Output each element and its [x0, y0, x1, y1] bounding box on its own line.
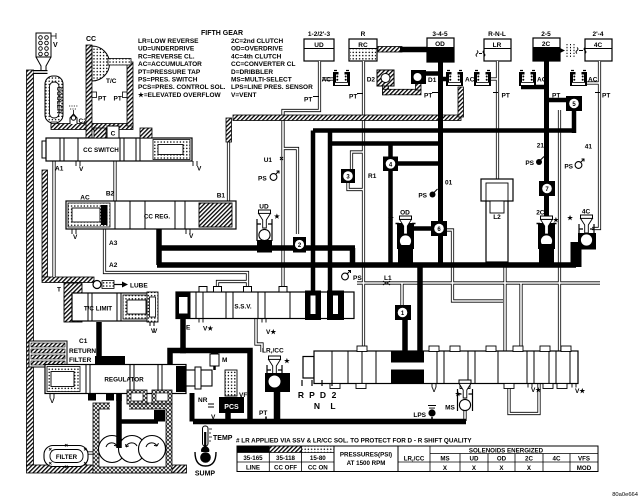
svg-text:T/C LIMIT: T/C LIMIT	[84, 306, 112, 313]
svg-text:LR,/CC: LR,/CC	[262, 348, 284, 355]
clutch LR box	[484, 31, 511, 61]
svg-text:V★: V★	[575, 387, 586, 395]
valve CC REG	[66, 191, 236, 270]
svg-text:UD: UD	[259, 204, 269, 211]
wire R1 branch into ball 3	[352, 152, 364, 169]
svg-text:D1: D1	[428, 77, 437, 84]
accumulator AC (2C circuit)	[519, 71, 536, 87]
pump manifold stub	[154, 410, 165, 422]
vent component top-left	[36, 33, 58, 71]
wire CC REG riser to bus	[156, 229, 162, 265]
wire SSV feed leg 1	[311, 131, 316, 293]
wire D1 stub to OD line	[426, 71, 440, 76]
wire UD clutch pipe	[283, 61, 320, 292]
inner hatched wall horizontal above T/C limit	[42, 277, 94, 283]
svg-text:PS=PRES. SWITCH: PS=PRES. SWITCH	[138, 77, 198, 84]
wire manual valve top feed 1	[447, 230, 503, 301]
manual valve vent labels	[432, 384, 436, 388]
svg-text:M: M	[222, 357, 227, 364]
svg-text:V=VENT: V=VENT	[231, 92, 256, 99]
svg-text:OD: OD	[400, 210, 410, 217]
svg-text:V: V	[79, 166, 84, 173]
svg-text:PT: PT	[349, 94, 357, 101]
SSV top port stubs	[199, 287, 287, 293]
wire E-feed to regulator	[170, 351, 186, 366]
svg-text:FILTER: FILTER	[69, 357, 92, 364]
wire OD supply bar	[400, 47, 427, 53]
svg-text:R1: R1	[368, 173, 377, 180]
wire pump manifold	[119, 419, 158, 424]
svg-text:L: L	[330, 401, 335, 411]
cooler outlet to hatched line	[51, 122, 57, 127]
pipe cores (white)	[54, 61, 600, 453]
svg-text:L1: L1	[384, 275, 392, 282]
svg-text:D=DRIBBLER: D=DRIBBLER	[231, 69, 273, 76]
wire manual valve top feed 2	[519, 283, 522, 351]
legend left column	[138, 38, 226, 99]
L1 restrictor	[383, 281, 390, 285]
solenoid 4C	[567, 209, 596, 250]
svg-text:RETURN: RETURN	[69, 348, 96, 355]
PT port left wall	[92, 92, 97, 98]
suction filter	[44, 444, 88, 468]
valve REGULATOR	[45, 351, 247, 421]
port hatch stub right-top of CC SWITCH	[140, 128, 152, 138]
svg-text:A3: A3	[109, 240, 118, 247]
wire ball5 drop	[572, 110, 577, 133]
svg-text:2C: 2C	[536, 210, 545, 217]
svg-text:R: R	[361, 31, 366, 38]
svg-text:R-N-L: R-N-L	[488, 31, 506, 38]
solenoid 2C	[536, 210, 560, 264]
PCS pressure control solenoid	[219, 397, 244, 413]
wire ball6 arm to OD solenoid	[413, 226, 433, 231]
manual valve pressurized section	[391, 351, 424, 384]
wire RC clutch pipe	[362, 61, 365, 350]
pressure table	[237, 446, 334, 472]
hatched elbow D2 to D1	[383, 85, 389, 95]
svg-text:T: T	[57, 287, 61, 294]
svg-text:LR: LR	[493, 42, 502, 49]
thick pressurized lines	[99, 50, 576, 449]
svg-text:UD=UNDERDRIVE: UD=UNDERDRIVE	[138, 46, 195, 53]
ball 5	[566, 96, 582, 111]
svg-text:21: 21	[537, 143, 545, 150]
wire SSV to LR/CC solenoid	[256, 319, 262, 353]
solenoid OD	[388, 210, 415, 264]
svg-text:80a0e664: 80a0e664	[612, 492, 639, 498]
svg-text:P: P	[309, 390, 315, 400]
wire OD clutch main line	[438, 62, 443, 268]
svg-text:PS: PS	[353, 275, 362, 282]
wire ball4 to OD line	[396, 161, 441, 166]
manual valve position ticks	[302, 380, 332, 386]
ball 6	[431, 221, 447, 236]
wire MS valve to line	[463, 411, 466, 421]
ball 3	[341, 169, 377, 183]
M orifice	[210, 354, 219, 366]
svg-text:LR,/CC: LR,/CC	[404, 456, 425, 463]
svg-text:4C: 4C	[582, 209, 591, 216]
svg-text:2C: 2C	[542, 41, 551, 48]
valve T/C LIMIT	[57, 281, 158, 346]
wire solenoid supply bar	[159, 245, 355, 251]
pressure switch on L1 line	[342, 271, 363, 283]
svg-text:3-4-5: 3-4-5	[432, 31, 448, 38]
valve CC SWITCH	[42, 126, 202, 173]
svg-text:RC: RC	[358, 42, 368, 49]
svg-text:FILTER: FILTER	[56, 454, 78, 461]
svg-text:4C=4th CLUTCH: 4C=4th CLUTCH	[231, 53, 282, 60]
svg-text:OD=OVERDRIVE: OD=OVERDRIVE	[231, 46, 283, 53]
clutch RC box	[349, 31, 377, 61]
wire AC stub to UD pipe	[322, 77, 333, 80]
wire 4C clutch pipe	[592, 61, 600, 229]
dribbler spray right of 2C	[560, 48, 565, 53]
wire E-feed to lower bus	[180, 351, 250, 422]
accumulator L2	[481, 179, 513, 262]
svg-text:V: V	[73, 234, 78, 241]
port C box	[107, 126, 119, 138]
svg-text:C: C	[111, 131, 116, 138]
wire ball1 to manual valve	[402, 318, 408, 351]
svg-text:35-165: 35-165	[243, 455, 263, 462]
cooler return wall (left hatched band)	[27, 70, 34, 466]
svg-text:CC REG.: CC REG.	[144, 214, 170, 221]
svg-text:V: V	[53, 42, 58, 49]
accumulator AC (LR circuit)	[474, 71, 491, 87]
sensor LPS	[413, 406, 436, 422]
ball 7	[539, 181, 555, 196]
svg-text:A1: A1	[55, 166, 64, 173]
solenoid table	[398, 446, 598, 472]
svg-text:CC SWITCH: CC SWITCH	[83, 147, 119, 154]
svg-text:D: D	[320, 390, 326, 400]
ball 2	[293, 237, 306, 253]
wire B1 pipe	[227, 140, 230, 201]
svg-text:LUBE: LUBE	[130, 283, 148, 290]
nozzle bowtie left of LR	[476, 51, 485, 57]
wire SSV top loop	[218, 282, 248, 293]
bottom hatched band	[27, 465, 187, 473]
svg-text:COOLER: COOLER	[55, 86, 62, 114]
svg-text:PT: PT	[259, 410, 267, 417]
VF screen	[225, 370, 237, 396]
pressure switch on 4C line	[564, 144, 592, 171]
svg-text:2C: 2C	[525, 456, 533, 463]
svg-text:# LR APPLIED VIA SSV & LR/CC S: # LR APPLIED VIA SSV & LR/CC SOL. TO PRO…	[236, 438, 472, 445]
svg-text:4C: 4C	[594, 42, 603, 49]
svg-text:CC: CC	[86, 36, 96, 43]
wire SSV feed leg 2	[328, 131, 333, 292]
wire AC stub to LR pipe	[491, 77, 497, 80]
svg-text:PT: PT	[114, 96, 122, 103]
accumulator AC (UD circuit)	[333, 71, 350, 87]
legend right column	[231, 38, 313, 99]
pressure switch U1 area	[258, 157, 283, 183]
svg-text:N: N	[314, 401, 320, 411]
wire 4C solenoid riser	[571, 242, 582, 267]
vent tick V on CC SWITCH	[76, 161, 80, 166]
svg-text:AC: AC	[465, 77, 475, 84]
vent tick V right of CC SWITCH	[193, 161, 197, 166]
valve S.S.V.	[176, 287, 354, 337]
svg-text:CC OFF: CC OFF	[274, 465, 297, 472]
wire filter connector	[85, 451, 99, 454]
torque converter dome	[92, 46, 110, 81]
svg-text:V: V	[151, 328, 156, 335]
svg-text:41: 41	[585, 144, 593, 151]
svg-text:35-118: 35-118	[276, 455, 295, 462]
svg-text:PCS=PRES. CONTROL SOL.: PCS=PRES. CONTROL SOL.	[138, 84, 226, 91]
wire regulator NR drop	[190, 393, 195, 422]
return filter	[29, 341, 96, 367]
nozzle bowtie left of 4C	[576, 48, 586, 54]
wire 2C tap line to manual valve	[558, 110, 561, 351]
ball 4	[383, 157, 398, 172]
wire L2 left leg to manual valve	[487, 262, 490, 265]
svg-text:LPS: LPS	[413, 412, 426, 419]
svg-text:4C: 4C	[553, 456, 561, 463]
converter-out hatched line (cooler feed)	[51, 124, 133, 130]
svg-text:REGULATOR: REGULATOR	[104, 377, 144, 384]
svg-text:V: V	[50, 398, 55, 405]
SSV E end block	[176, 292, 191, 319]
accumulator AC (OD circuit)	[446, 71, 463, 87]
wire R1 branch out of ball 3	[348, 183, 364, 190]
wire L2 right leg to manual valve	[503, 262, 506, 351]
svg-text:R: R	[298, 390, 304, 400]
lube outlet with check ball	[93, 281, 101, 289]
svg-text:MS=MULTI-SELECT: MS=MULTI-SELECT	[231, 77, 292, 84]
svg-text:AC: AC	[588, 77, 598, 84]
solenoid UD	[257, 204, 281, 253]
svg-text:AC: AC	[322, 77, 332, 84]
wire C1 converter feed	[96, 322, 102, 360]
thermometer TEMP	[201, 426, 233, 455]
svg-text:PT: PT	[502, 93, 510, 100]
pipe from vent to cooler junction	[34, 70, 48, 74]
PT port right wall	[123, 92, 128, 98]
svg-text:NR: NR	[198, 397, 208, 404]
svg-text:PT: PT	[552, 93, 560, 100]
inner hatched wall left of T/C limit	[42, 170, 48, 278]
svg-text:LPS=LINE PRES. SENSOR: LPS=LINE PRES. SENSOR	[231, 84, 313, 91]
dribbler D2	[367, 70, 394, 86]
manual valve body	[298, 346, 586, 411]
SSV pressurized land 2	[327, 291, 344, 321]
wire B2 pipe	[113, 161, 116, 201]
clutch UD box	[304, 31, 334, 61]
svg-text:SUMP: SUMP	[195, 471, 216, 478]
svg-text:E: E	[186, 325, 191, 332]
svg-text:V★: V★	[531, 386, 542, 394]
svg-text:MOD: MOD	[577, 465, 592, 472]
torque converter stem	[108, 59, 131, 66]
svg-text:PS: PS	[418, 193, 427, 200]
svg-text:T/C: T/C	[106, 78, 117, 85]
pump enclosure walls	[93, 390, 172, 473]
wire LR/CC solenoid drop	[274, 392, 281, 422]
svg-text:RC=REVERSE CL.: RC=REVERSE CL.	[138, 53, 195, 60]
svg-text:2-5: 2-5	[541, 31, 551, 38]
wire ball4 down to line bus	[388, 169, 393, 263]
svg-text:MS: MS	[445, 405, 455, 412]
svg-text:PT=PRESSURE TAP: PT=PRESSURE TAP	[138, 69, 201, 76]
hatched stub down to B1	[226, 118, 232, 142]
hatched stub up to OD accumulator	[458, 87, 464, 117]
svg-text:VFS: VFS	[578, 456, 590, 463]
svg-text:AT 1500 RPM: AT 1500 RPM	[347, 460, 386, 467]
svg-text:U1: U1	[264, 157, 273, 164]
svg-text:PT: PT	[304, 97, 312, 104]
svg-text:V: V	[432, 387, 437, 394]
hatched feed RC to OD supply	[378, 47, 402, 53]
svg-text:B1: B1	[217, 193, 226, 200]
svg-text:AC: AC	[537, 77, 547, 84]
svg-text:CC ON: CC ON	[308, 465, 328, 472]
svg-text:CC=CONVERTER CL: CC=CONVERTER CL	[231, 61, 295, 68]
wire loop under manual valve	[509, 384, 539, 414]
svg-text:PS: PS	[258, 176, 267, 183]
accumulator AC (4C circuit)	[570, 71, 587, 87]
wire ball4 stub up	[388, 145, 393, 158]
wire 2C accumulator stub	[521, 85, 547, 90]
wire cross line y143	[330, 141, 441, 146]
orifice component left of SSV	[147, 292, 158, 335]
svg-text:B2: B2	[106, 191, 115, 198]
wire LR clutch pipe to L2	[496, 61, 499, 179]
svg-text:★=ELEVATED OVERFLOW: ★=ELEVATED OVERFLOW	[138, 91, 222, 99]
solenoid MS	[445, 380, 472, 412]
svg-text:A2: A2	[109, 262, 118, 269]
wire pump discharge (over enclosure)	[119, 394, 158, 448]
wire 2C clutch main line	[544, 61, 549, 219]
svg-text:PS: PS	[564, 164, 573, 171]
wire pump discharge	[116, 394, 122, 448]
CC enclosure left wall	[86, 45, 92, 140]
svg-text:OD: OD	[497, 456, 507, 463]
pressure switch on 2C line	[525, 143, 544, 168]
hatched converter-clutch signal line	[233, 115, 461, 121]
PT tap lower bus	[259, 410, 267, 421]
svg-text:LR=LOW REVERSE: LR=LOW REVERSE	[138, 38, 199, 45]
solenoid LR/CC	[262, 348, 291, 393]
svg-text:PT: PT	[424, 93, 432, 100]
wire bus branch to manual valve	[417, 266, 423, 351]
svg-text:PCS: PCS	[224, 404, 239, 411]
wire L1 line	[357, 281, 600, 284]
wire PCS stub	[225, 413, 231, 422]
clutch OD box (applied, black)	[427, 31, 454, 62]
clutch 2C box (applied, black)	[533, 31, 560, 61]
pressures box	[334, 446, 398, 472]
svg-text:OD: OD	[435, 41, 445, 48]
CC enclosure right wall	[127, 62, 133, 126]
thin hydraulic pipes (outer walls)	[54, 61, 600, 453]
regulator outlet piping to NR	[186, 370, 212, 386]
wire A1 pipe	[52, 161, 55, 277]
svg-text:S.S.V.: S.S.V.	[234, 304, 252, 311]
svg-text:TEMP: TEMP	[213, 435, 233, 442]
svg-text:V: V	[189, 233, 194, 240]
wire supply bar drop	[350, 248, 356, 263]
svg-text:L2: L2	[493, 214, 501, 221]
SSV pressurized land 1	[305, 291, 321, 321]
wire SSV E-port feed	[180, 319, 186, 352]
svg-text:PS: PS	[525, 160, 534, 167]
svg-text:2C=2nd CLUTCH: 2C=2nd CLUTCH	[231, 38, 283, 45]
svg-text:PRESSURES(PSI): PRESSURES(PSI)	[340, 452, 392, 459]
wire 2C elbow to ball5	[547, 98, 568, 103]
svg-text:2'-4: 2'-4	[593, 31, 604, 38]
wire cross line y130 from ball 5	[313, 128, 574, 133]
port hatch stub left-top of CC SWITCH	[94, 128, 106, 138]
dribbler D1	[411, 70, 437, 84]
svg-text:V: V	[211, 414, 216, 421]
wire lower bus	[193, 419, 466, 425]
svg-text:PT: PT	[98, 96, 106, 103]
cooler	[45, 76, 63, 123]
svg-text:2: 2	[332, 390, 337, 400]
pressure switch on OD line	[418, 180, 452, 200]
wire OD accumulator stub	[440, 77, 447, 82]
wire drop to ball 1	[400, 283, 403, 305]
svg-text:V★: V★	[266, 328, 277, 336]
svg-text:LINE: LINE	[246, 465, 260, 472]
svg-text:UD: UD	[470, 456, 479, 463]
svg-text:C1: C1	[79, 338, 88, 345]
svg-text:PT: PT	[602, 93, 610, 100]
svg-text:UD: UD	[314, 42, 324, 49]
clutch 4C box	[585, 31, 612, 61]
wire AC stub to 4C pipe	[587, 81, 599, 84]
svg-text:1-2/2'-3: 1-2/2'-3	[308, 31, 331, 38]
wire UD branch to ball 2	[283, 149, 298, 235]
wire main line bus	[157, 262, 576, 268]
svg-text:V: V	[197, 166, 202, 173]
svg-text:V★: V★	[203, 325, 214, 333]
svg-text:MS: MS	[440, 456, 449, 463]
svg-text:FIFTH GEAR: FIFTH GEAR	[201, 30, 243, 37]
pump rotors	[99, 436, 166, 463]
C2 check valve	[69, 106, 87, 125]
ball 1	[384, 275, 411, 320]
svg-text:01: 01	[445, 180, 453, 187]
svg-text:D2: D2	[367, 77, 376, 84]
wire A3/A2 pipe to SSV	[105, 229, 248, 292]
regulator inlet manifold block	[95, 356, 125, 365]
svg-text:15-80: 15-80	[310, 455, 326, 462]
sump pickup	[195, 448, 216, 478]
svg-text:AC=ACCUMULATOR: AC=ACCUMULATOR	[138, 61, 202, 68]
